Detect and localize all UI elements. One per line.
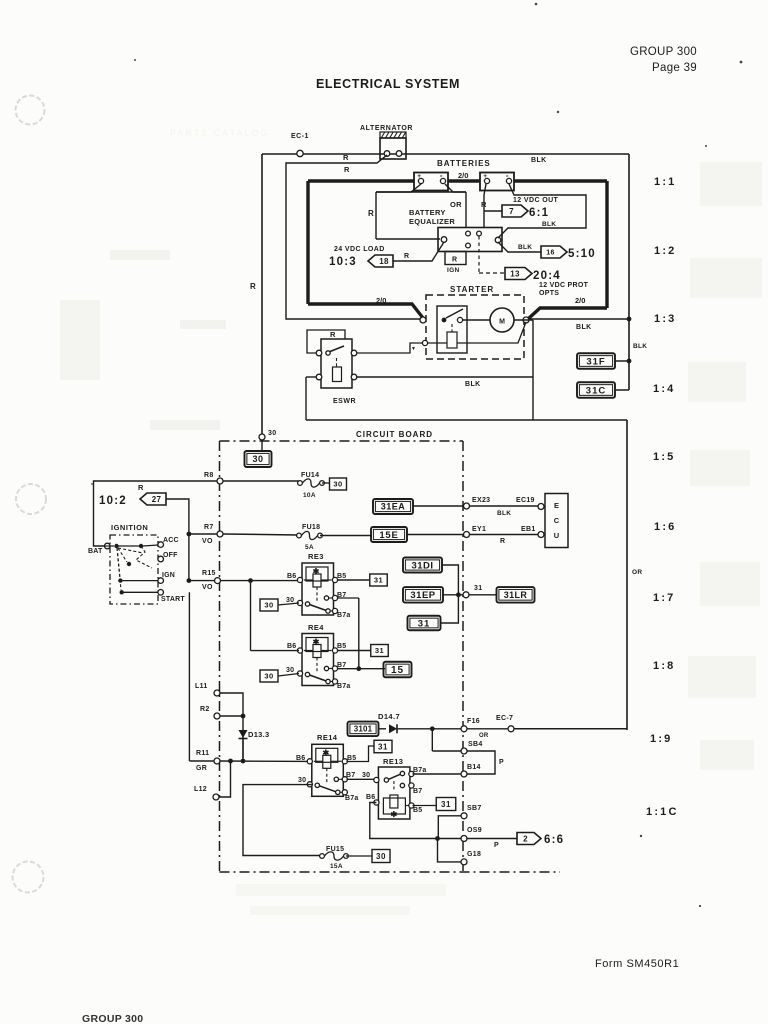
svg-text:2/0: 2/0 xyxy=(575,296,585,305)
svg-text:FU14: FU14 xyxy=(301,472,319,479)
svg-text:5A: 5A xyxy=(305,544,314,551)
svg-text:P: P xyxy=(494,842,499,849)
svg-text:1:3: 1:3 xyxy=(654,313,677,325)
svg-text:EQUALIZER: EQUALIZER xyxy=(409,217,455,226)
svg-text:RE3: RE3 xyxy=(308,552,324,561)
svg-text:1:2: 1:2 xyxy=(654,245,677,257)
svg-text:GR: GR xyxy=(196,765,207,772)
svg-text:B7a: B7a xyxy=(337,683,350,690)
svg-text:RE13: RE13 xyxy=(383,757,403,766)
svg-text:31: 31 xyxy=(474,585,482,592)
svg-text:1:5: 1:5 xyxy=(653,451,676,463)
svg-text:B5: B5 xyxy=(413,807,422,814)
svg-text:SB7: SB7 xyxy=(467,805,482,812)
svg-text:R2: R2 xyxy=(200,706,210,713)
svg-text:7: 7 xyxy=(509,207,514,216)
svg-text:EX23: EX23 xyxy=(472,497,490,504)
svg-text:EC-1: EC-1 xyxy=(291,133,309,140)
svg-text:D14.7: D14.7 xyxy=(378,712,400,721)
svg-text:30: 30 xyxy=(333,480,342,489)
svg-text:1:8: 1:8 xyxy=(653,660,676,672)
svg-text:B6: B6 xyxy=(296,755,305,762)
svg-text:30: 30 xyxy=(362,772,370,779)
svg-text:SB4: SB4 xyxy=(468,741,483,748)
svg-text:31: 31 xyxy=(374,576,383,585)
svg-text:D13.3: D13.3 xyxy=(248,730,270,739)
svg-text:R: R xyxy=(343,153,349,162)
svg-text:R: R xyxy=(500,538,505,545)
svg-text:31C: 31C xyxy=(586,385,606,396)
svg-text:R: R xyxy=(344,165,350,174)
svg-text:BLK: BLK xyxy=(542,221,556,228)
svg-text:13: 13 xyxy=(510,269,520,278)
svg-text:OS9: OS9 xyxy=(467,827,482,834)
svg-text:BLK: BLK xyxy=(465,381,481,388)
svg-text:R: R xyxy=(138,483,144,492)
svg-text:GROUP 300: GROUP 300 xyxy=(630,46,697,58)
svg-text:2/0: 2/0 xyxy=(376,296,386,305)
svg-text:31LR: 31LR xyxy=(504,590,528,600)
svg-text:OR: OR xyxy=(450,200,462,209)
svg-text:B6: B6 xyxy=(366,794,375,801)
svg-text:✱: ✱ xyxy=(391,810,398,819)
svg-text:VO: VO xyxy=(202,538,213,545)
svg-text:5:10: 5:10 xyxy=(568,248,596,260)
svg-text:EC-7: EC-7 xyxy=(496,715,513,722)
svg-text:15A: 15A xyxy=(330,863,343,870)
svg-text:Form SM450R1: Form SM450R1 xyxy=(595,958,679,970)
svg-text:31: 31 xyxy=(441,800,451,809)
svg-text:RE14: RE14 xyxy=(317,733,338,742)
svg-text:BLK: BLK xyxy=(531,157,547,164)
svg-text:G18: G18 xyxy=(467,851,481,858)
svg-text:B7a: B7a xyxy=(413,767,426,774)
svg-text:FU18: FU18 xyxy=(302,524,320,531)
svg-text:B7a: B7a xyxy=(345,795,358,802)
svg-text:+: + xyxy=(417,173,421,180)
svg-text:IGNITION: IGNITION xyxy=(111,523,148,532)
svg-text:STARTER: STARTER xyxy=(450,285,494,294)
svg-text:6:1: 6:1 xyxy=(529,207,549,219)
svg-text:-: - xyxy=(440,171,443,180)
svg-text:31DI: 31DI xyxy=(411,560,433,571)
svg-text:1:6: 1:6 xyxy=(654,521,677,533)
svg-text:BLK: BLK xyxy=(518,244,532,251)
svg-text:31: 31 xyxy=(375,646,384,655)
svg-text:OFF: OFF xyxy=(163,552,178,559)
svg-text:30: 30 xyxy=(252,454,263,464)
svg-text:R: R xyxy=(250,282,256,291)
svg-text:1:1C: 1:1C xyxy=(646,806,679,818)
svg-text:6:6: 6:6 xyxy=(544,834,564,846)
svg-text:IGN: IGN xyxy=(447,267,459,274)
svg-text:B5: B5 xyxy=(337,573,346,580)
svg-text:GROUP 300: GROUP 300 xyxy=(82,1013,143,1024)
svg-text:R: R xyxy=(481,200,487,209)
svg-text:2/0: 2/0 xyxy=(458,171,468,180)
svg-text:31: 31 xyxy=(418,618,431,629)
svg-text:✱: ✱ xyxy=(322,748,329,757)
svg-text:20:4: 20:4 xyxy=(533,270,561,282)
svg-text:CIRCUIT BOARD: CIRCUIT BOARD xyxy=(356,430,433,439)
svg-text:B6: B6 xyxy=(287,573,296,580)
svg-text:VO: VO xyxy=(202,584,213,591)
svg-text:24 VDC LOAD: 24 VDC LOAD xyxy=(334,246,385,253)
svg-text:START: START xyxy=(161,596,185,603)
svg-text:10A: 10A xyxy=(303,492,316,499)
svg-text:30: 30 xyxy=(268,430,276,437)
svg-text:BATTERY: BATTERY xyxy=(409,208,446,217)
svg-text:30: 30 xyxy=(376,852,386,861)
svg-text:E: E xyxy=(554,501,559,510)
svg-text:BLK: BLK xyxy=(497,510,511,517)
svg-text:L11: L11 xyxy=(195,683,208,690)
svg-text:ALTERNATOR: ALTERNATOR xyxy=(360,125,413,132)
svg-text:B7: B7 xyxy=(346,772,355,779)
svg-text:OR: OR xyxy=(479,733,489,739)
svg-text:31EP: 31EP xyxy=(410,590,435,601)
svg-text:-: - xyxy=(506,171,509,180)
svg-text:31EA: 31EA xyxy=(381,502,406,512)
svg-text:12 VDC PROT: 12 VDC PROT xyxy=(539,282,589,289)
svg-text:U: U xyxy=(554,531,559,540)
svg-text:PARTS CATALOG: PARTS CATALOG xyxy=(170,128,269,138)
svg-text:30: 30 xyxy=(264,672,273,681)
svg-text:R8: R8 xyxy=(204,472,214,479)
svg-text:BAT: BAT xyxy=(88,548,103,555)
svg-text:15E: 15E xyxy=(379,530,398,541)
svg-text:BLK: BLK xyxy=(633,343,647,350)
svg-text:C: C xyxy=(554,516,560,525)
svg-text:1:7: 1:7 xyxy=(653,592,676,604)
svg-text:R7: R7 xyxy=(204,524,214,531)
svg-text:3101: 3101 xyxy=(354,725,373,734)
svg-text:1:4: 1:4 xyxy=(653,383,676,395)
svg-text:31: 31 xyxy=(378,742,388,751)
svg-text:ESWR: ESWR xyxy=(333,398,356,405)
svg-text:31F: 31F xyxy=(586,356,605,367)
svg-text:ACC: ACC xyxy=(163,537,179,544)
svg-text:R: R xyxy=(404,253,409,260)
svg-text:B5: B5 xyxy=(337,643,346,650)
svg-text:OR: OR xyxy=(632,569,642,576)
svg-text:12 VDC OUT: 12 VDC OUT xyxy=(513,197,559,204)
svg-text:B6: B6 xyxy=(287,643,296,650)
svg-text:OPTS: OPTS xyxy=(539,290,559,297)
svg-text:+: + xyxy=(483,173,487,180)
svg-text:✱: ✱ xyxy=(313,638,320,647)
svg-text:✱: ✱ xyxy=(313,567,320,576)
svg-text:30: 30 xyxy=(298,777,306,784)
svg-text:16: 16 xyxy=(546,250,554,257)
svg-text:EB1: EB1 xyxy=(521,526,536,533)
svg-text:2: 2 xyxy=(523,834,528,843)
svg-text:R11: R11 xyxy=(196,750,209,757)
svg-text:Page 39: Page 39 xyxy=(652,62,697,74)
svg-text:BLK: BLK xyxy=(576,324,592,331)
svg-text:▼: ▼ xyxy=(411,346,416,352)
svg-text:IGN: IGN xyxy=(162,572,175,579)
svg-text:18: 18 xyxy=(379,257,389,266)
svg-text:EY1: EY1 xyxy=(472,526,486,533)
svg-text:RE4: RE4 xyxy=(308,623,324,632)
svg-text:EC19: EC19 xyxy=(516,497,535,504)
svg-text:27: 27 xyxy=(152,495,162,504)
svg-text:1:1: 1:1 xyxy=(654,176,677,188)
svg-text:F16: F16 xyxy=(467,718,480,725)
svg-text:B7: B7 xyxy=(337,662,346,669)
svg-text:M: M xyxy=(499,319,505,326)
svg-text:B7: B7 xyxy=(413,788,422,795)
svg-text:R15: R15 xyxy=(202,570,216,577)
svg-text:30: 30 xyxy=(286,667,294,674)
svg-text:B14: B14 xyxy=(467,764,481,771)
svg-text:10:3: 10:3 xyxy=(329,256,357,268)
svg-text:10:2: 10:2 xyxy=(99,495,127,507)
svg-text:R: R xyxy=(368,209,374,218)
svg-text:15: 15 xyxy=(391,665,404,676)
svg-text:P: P xyxy=(499,759,504,766)
svg-text:L12: L12 xyxy=(194,786,207,793)
svg-text:R: R xyxy=(330,330,336,339)
svg-text:30: 30 xyxy=(264,601,273,610)
svg-text:BATTERIES: BATTERIES xyxy=(437,159,491,168)
svg-text:B7a: B7a xyxy=(337,612,350,619)
svg-text:R: R xyxy=(452,257,457,264)
svg-text:ELECTRICAL SYSTEM: ELECTRICAL SYSTEM xyxy=(316,77,460,91)
svg-text:1:9: 1:9 xyxy=(650,733,673,745)
